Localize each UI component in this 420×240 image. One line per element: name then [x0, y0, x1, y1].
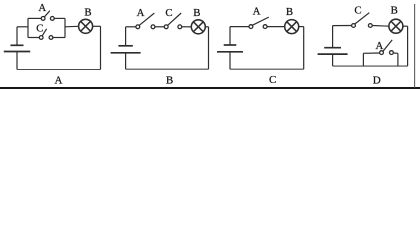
svg-text:B: B — [193, 7, 200, 19]
svg-text:A: A — [253, 5, 261, 17]
svg-text:C: C — [269, 74, 276, 86]
svg-text:C: C — [36, 23, 43, 35]
svg-text:A: A — [55, 75, 63, 87]
svg-text:B: B — [391, 5, 398, 17]
svg-text:B: B — [166, 74, 173, 86]
svg-text:D: D — [373, 74, 381, 86]
svg-text:B: B — [84, 6, 91, 18]
svg-text:C: C — [354, 4, 361, 16]
svg-text:A: A — [38, 2, 46, 14]
svg-text:A: A — [375, 40, 383, 52]
svg-text:C: C — [165, 7, 172, 19]
svg-text:A: A — [137, 7, 145, 19]
svg-text:B: B — [286, 6, 293, 18]
